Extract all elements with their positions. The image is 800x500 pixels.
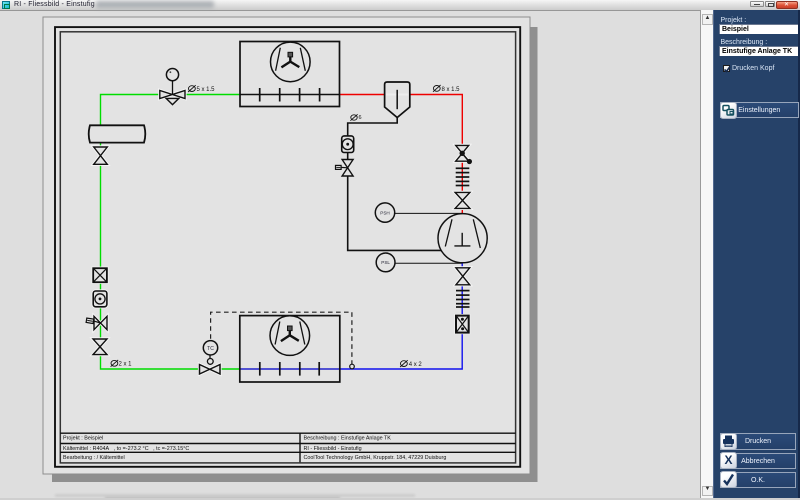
3-way valve body (160, 90, 185, 98)
oil sight glass (342, 136, 354, 153)
compressor (438, 214, 487, 263)
suction line sensor bulb (350, 364, 355, 369)
svg-text:8 x 1.5: 8 x 1.5 (442, 87, 461, 93)
suction filter (456, 316, 469, 333)
vertical scrollbar (700, 10, 713, 498)
svg-text:6: 6 (359, 115, 362, 121)
label 6 (oil line) (350, 114, 361, 121)
svg-text:4 x 2: 4 x 2 (409, 362, 423, 368)
suction service valve (456, 268, 470, 285)
title block table (60, 433, 515, 462)
oil solenoid valve (336, 160, 354, 177)
separator liquid level (386, 94, 409, 96)
TXV equalizer bulb circle (207, 359, 213, 365)
condenser coil ticks (260, 88, 320, 102)
TC sensor circle (203, 341, 217, 355)
label 35x1.5 (188, 85, 215, 93)
label 22x1 (111, 360, 133, 368)
label 28x1.5 (433, 85, 460, 93)
discharge service valve (456, 145, 472, 164)
label 54x2 (400, 360, 422, 368)
TC capillary (dashed) (211, 312, 352, 364)
separator dip tube (396, 90, 398, 109)
drawing sheet page (43, 17, 530, 474)
svg-text:PSH: PSH (380, 210, 389, 215)
svg-text:Projekt : Beispiel: Projekt : Beispiel (63, 435, 103, 441)
evaporator fan circle (270, 316, 310, 356)
suction line (blue) (340, 263, 462, 369)
3-way valve actuator head (166, 69, 178, 81)
sight glass (liquid line) (93, 291, 107, 307)
solenoid valve (liquid line) (86, 316, 107, 329)
oil return line (348, 118, 442, 251)
evaporator box U2 (240, 316, 340, 382)
outer border frame (55, 27, 520, 467)
svg-text:5 x 1.5: 5 x 1.5 (197, 87, 216, 93)
filter drier (liquid line) (93, 268, 107, 282)
receiver outlet valve (94, 147, 108, 164)
svg-text:PSL: PSL (381, 260, 390, 265)
right options panel (713, 10, 800, 499)
title block text (63, 435, 446, 461)
svg-text:Beschreibung : Einstufige Anla: Beschreibung : Einstufige Anlage TK (304, 435, 392, 441)
condenser fan circle (271, 42, 311, 82)
PSH pressure switch (375, 203, 394, 222)
PSL sense line (395, 262, 462, 264)
inner border frame (60, 32, 515, 463)
PSL pressure switch (376, 253, 395, 272)
evaporator fan blades (275, 322, 305, 345)
condenser fan blades (276, 48, 306, 71)
svg-text:RI - Fliessbild - Einstufig: RI - Fliessbild - Einstufig (304, 446, 362, 452)
discharge vibration absorber (456, 168, 470, 185)
sheet drop shadow (52, 27, 538, 482)
compressor discharge valve (455, 192, 470, 208)
PSH sense line (395, 212, 462, 214)
evaporator coil pipe (240, 368, 340, 370)
condenser box U1 (240, 42, 340, 107)
oil separator vessel (385, 82, 410, 118)
svg-text:Kältemittel : R404A , to =-2: Kältemittel : R404A , to =-273.2 °C , tc… (63, 446, 189, 452)
svg-text:TC: TC (207, 346, 214, 352)
svg-text:2 x 1: 2 x 1 (119, 362, 133, 368)
condenser coil pipe (240, 94, 340, 96)
svg-text:CoolTool Technology GmbH, Krup: CoolTool Technology GmbH, Kruppstr. 184,… (304, 455, 447, 461)
svg-text:Bearbeitung : / Kältemittel: Bearbeitung : / Kältemittel (63, 455, 125, 461)
thermostatic expansion valve (200, 355, 221, 375)
shut-off valve (liquid line) (93, 339, 107, 355)
bottom strip (55, 494, 415, 497)
suction vibration absorber (456, 291, 470, 307)
liquid line (green) (101, 95, 241, 370)
window title bar (0, 0, 800, 11)
evaporator coil ticks (260, 362, 319, 376)
discharge line (red) (340, 95, 463, 214)
receiver vessel (89, 125, 146, 142)
